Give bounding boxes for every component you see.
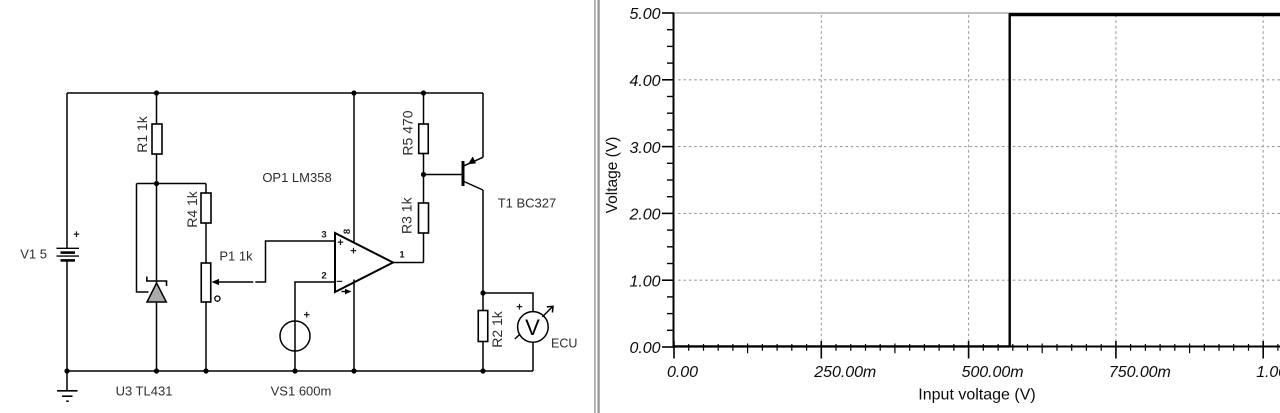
panel splitter xyxy=(594,0,600,413)
ground symbol xyxy=(57,371,78,401)
svg-text:3: 3 xyxy=(321,230,326,241)
svg-text:+: + xyxy=(304,310,310,322)
wire: R3 bottom to op-amp output xyxy=(423,233,425,263)
svg-text:1: 1 xyxy=(399,250,405,261)
svg-text:T1 BC327: T1 BC327 xyxy=(498,196,557,211)
wire: R2 top lead xyxy=(482,293,484,311)
op-amp OP1 triangle xyxy=(335,233,393,292)
wire: P1 bottom to ground bus xyxy=(205,302,207,371)
transistor T1 base bar xyxy=(462,161,465,186)
wire: base node to T1 base xyxy=(424,174,463,176)
svg-text:R1 1k: R1 1k xyxy=(134,115,150,153)
chart top border (5.00 gridline) xyxy=(674,12,1280,14)
wire: wiper to op-amp pin 3 xyxy=(255,241,334,282)
svg-text:−: − xyxy=(336,276,342,288)
junction dot node A xyxy=(154,181,159,186)
svg-text:750.00m: 750.00m xyxy=(1109,364,1171,381)
voltmeter ECU circle xyxy=(518,312,549,343)
P1 terminal circle xyxy=(215,296,220,301)
junction dot U3 / ground bus xyxy=(154,368,159,373)
junction dot op-amp V- / ground bus xyxy=(351,368,356,373)
transistor T1 collector xyxy=(464,182,483,191)
x axis major ticks xyxy=(674,341,1263,359)
wire: R1 bottom lead to node xyxy=(156,154,158,184)
wire: R2 bottom to ground bus xyxy=(482,342,484,372)
resistor R4 xyxy=(201,193,211,223)
svg-text:+: + xyxy=(350,246,356,258)
wire: R3 top lead xyxy=(423,175,425,204)
U3 TL431 triangle xyxy=(147,283,166,302)
wire: bottom ground bus xyxy=(67,370,533,372)
voltmeter arrow xyxy=(542,306,553,317)
wire: U3 anode to ground bus xyxy=(156,302,158,371)
svg-text:0.00: 0.00 xyxy=(630,340,661,357)
junction dot top bus / R1 branch xyxy=(154,90,159,95)
junction dot top bus / op-amp supply xyxy=(351,90,356,95)
svg-text:R3 1k: R3 1k xyxy=(399,196,415,234)
resistor R3 xyxy=(419,203,429,233)
wire: node A horizontal (ref / R4 branch) xyxy=(137,183,207,185)
op-amp V- pin arrow xyxy=(342,289,352,294)
horizontal dashed gridlines 1.00-4.00 xyxy=(678,80,1280,280)
y axis minor ticks xyxy=(667,30,674,331)
svg-text:V: V xyxy=(525,315,540,340)
svg-text:VS1 600m: VS1 600m xyxy=(271,384,332,399)
svg-text:ECU: ECU xyxy=(551,337,577,351)
potentiometer P1 body xyxy=(201,263,211,302)
svg-text:R4 1k: R4 1k xyxy=(184,190,200,228)
svg-text:4.00: 4.00 xyxy=(630,73,661,90)
y axis line xyxy=(673,13,675,348)
svg-text:8: 8 xyxy=(342,229,353,234)
wire: op-amp V- to ground bus xyxy=(353,280,355,372)
wire: op-amp V+ supply xyxy=(353,93,355,243)
wire: collector down to R2 node xyxy=(482,190,484,293)
wire: meter bottom to ground bus xyxy=(532,342,534,371)
data trace: rising step xyxy=(1009,14,1011,346)
U3 TL431 cathode bar xyxy=(146,277,167,287)
svg-text:U3 TL431: U3 TL431 xyxy=(116,384,173,399)
svg-text:Voltage (V): Voltage (V) xyxy=(604,137,621,214)
wire: U3 cathode lead xyxy=(156,184,158,284)
wire: left rail V1 top xyxy=(66,93,68,248)
svg-text:R5 470: R5 470 xyxy=(400,110,416,155)
svg-text:+: + xyxy=(337,237,343,249)
svg-text:R2 1k: R2 1k xyxy=(489,310,505,348)
source VS1 circle xyxy=(280,321,310,351)
x axis tick labels xyxy=(667,364,1280,381)
wire: op-amp output pin 1 xyxy=(393,262,424,264)
data trace: output high segment xyxy=(1009,13,1280,16)
svg-text:2.00: 2.00 xyxy=(629,207,661,224)
junction dot P1 / ground bus xyxy=(203,368,208,373)
svg-text:250.00m: 250.00m xyxy=(813,364,876,381)
vertical dashed gridlines 250m-1.00 xyxy=(821,15,1263,345)
data trace: output low segment xyxy=(674,345,1010,347)
junction dot top bus / R5 branch xyxy=(421,90,426,95)
P1 wiper arrow xyxy=(212,279,254,285)
svg-text:Input voltage (V): Input voltage (V) xyxy=(918,387,1035,404)
wire: VS1 to op-amp pin 2 xyxy=(295,282,334,321)
svg-text:3.00: 3.00 xyxy=(630,140,661,157)
svg-text:2: 2 xyxy=(321,271,326,282)
svg-text:1.00: 1.00 xyxy=(1256,364,1280,381)
wire: left rail V1 bottom xyxy=(66,262,68,372)
resistor R2 xyxy=(478,311,488,342)
svg-text:0.00: 0.00 xyxy=(667,364,698,381)
x axis minor ticks xyxy=(689,344,1278,354)
svg-text:500.00m: 500.00m xyxy=(962,364,1024,381)
svg-text:V1 5: V1 5 xyxy=(20,247,47,262)
wire: emitter to top bus xyxy=(482,93,484,158)
svg-text:+: + xyxy=(516,302,522,314)
svg-text:5.00: 5.00 xyxy=(630,6,661,23)
svg-text:OP1 LM358: OP1 LM358 xyxy=(262,170,331,185)
voltmeter minus lead tick xyxy=(515,335,520,339)
wire: R5 top lead xyxy=(423,93,425,124)
junction dot left rail / ground bus xyxy=(64,368,69,373)
junction dot base node xyxy=(421,172,426,177)
battery V1 xyxy=(57,229,80,260)
wire: VS1 through/bottom lead xyxy=(294,321,296,371)
wire: TL431 ref feedback xyxy=(137,184,149,293)
resistor R1 xyxy=(152,124,162,154)
wire: collector node to meter top xyxy=(483,293,533,312)
svg-text:1.00: 1.00 xyxy=(630,273,661,290)
junction dot collector node xyxy=(480,290,485,295)
junction dot R2 / ground bus xyxy=(480,368,485,373)
svg-text:+: + xyxy=(73,229,79,241)
transistor T1 emitter xyxy=(464,157,483,166)
x axis line xyxy=(673,346,1280,348)
wire: R4 top lead xyxy=(205,184,207,194)
junction dot VS1 / ground bus xyxy=(292,368,297,373)
wire: R4 bottom to P1 top xyxy=(205,223,207,263)
wire: R1 top lead xyxy=(156,93,158,124)
wire: top +5V bus xyxy=(67,92,483,94)
svg-text:P1 1k: P1 1k xyxy=(219,248,253,263)
resistor R5 xyxy=(419,124,429,154)
y axis major ticks xyxy=(662,13,674,347)
y axis tick labels xyxy=(629,6,661,357)
wire: R5 bottom to base node xyxy=(423,154,425,175)
